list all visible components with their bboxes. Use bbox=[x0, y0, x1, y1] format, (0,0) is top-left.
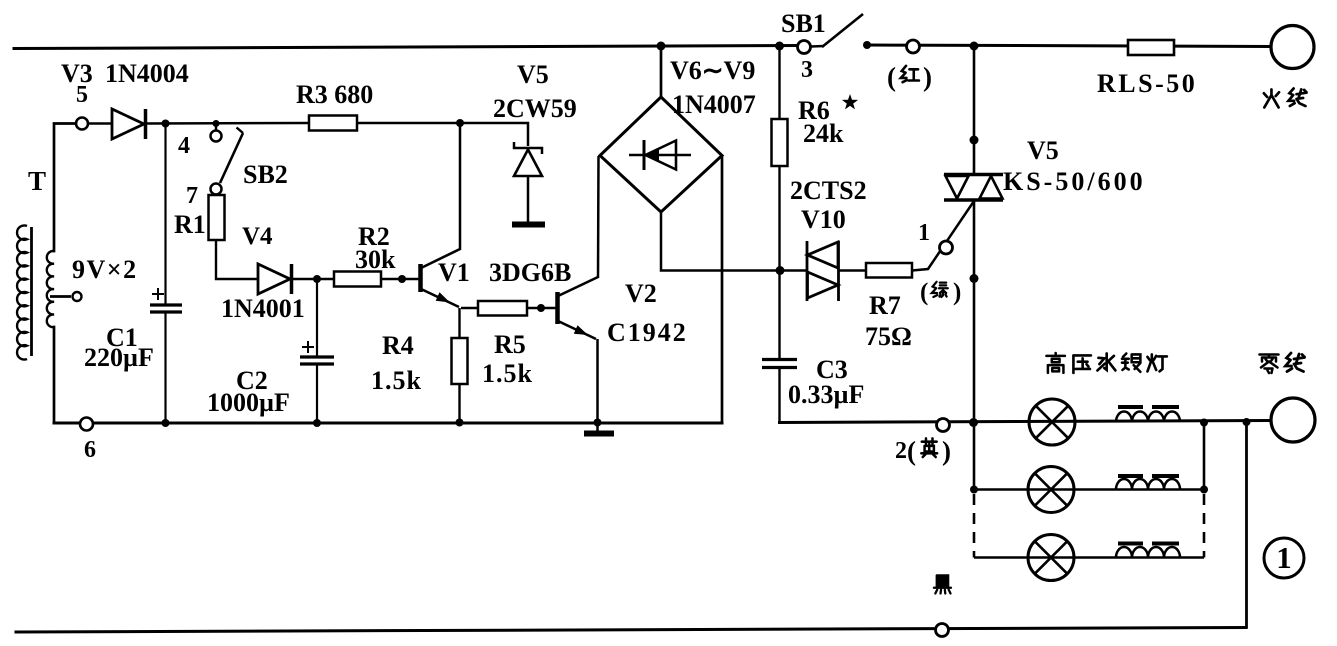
wire R4 top lead bbox=[458, 308, 460, 338]
wire V2 collector to bridge left vertex bbox=[597, 156, 600, 278]
wire lamp row3 bbox=[974, 556, 1204, 559]
label neutral wire bbox=[1260, 353, 1305, 373]
svg-text:SB2: SB2 bbox=[243, 160, 288, 189]
switch SB2 bottom contact bbox=[211, 184, 222, 195]
wire C2 bottom lead bbox=[316, 364, 318, 423]
svg-text:V10: V10 bbox=[801, 205, 846, 234]
switch SB1 blade bbox=[811, 14, 863, 47]
wire left vertical node5 bbox=[54, 124, 82, 252]
wire C3 bottom lead bbox=[778, 368, 780, 424]
lamp L3 bbox=[1028, 535, 1074, 581]
wire R3 to zener corner bbox=[357, 123, 528, 146]
wire bridge top lead bbox=[660, 46, 663, 97]
wire V2 emitter down bbox=[596, 339, 599, 423]
svg-text:T: T bbox=[28, 166, 46, 196]
terminal neutral wire circle bbox=[1271, 398, 1315, 442]
wire triac bottom lead bbox=[973, 201, 976, 423]
svg-text:2CW59: 2CW59 bbox=[493, 94, 577, 123]
switch SB2 blade bbox=[220, 133, 243, 183]
circled number 1 bbox=[1264, 538, 1304, 578]
node black terminal bottom bbox=[936, 624, 949, 637]
label high pressure mercury lamp bbox=[1046, 353, 1166, 373]
lamp L1 bbox=[1029, 399, 1075, 445]
resistor R5 1.5k bbox=[478, 301, 527, 316]
transformer T core bbox=[30, 227, 33, 356]
bridge rectifier V6-V9 diamond bbox=[600, 97, 722, 212]
svg-text:2CTS2: 2CTS2 bbox=[790, 176, 867, 205]
ground below V2 bbox=[584, 423, 614, 434]
star footnote mark bbox=[842, 94, 858, 109]
wire V1 emitter node bbox=[461, 307, 478, 310]
resistor R1 bbox=[209, 195, 225, 240]
svg-text:0.33µF: 0.33µF bbox=[788, 380, 864, 409]
svg-text:75Ω: 75Ω bbox=[865, 322, 912, 351]
label (green) bbox=[920, 279, 961, 306]
wire bottom rail bbox=[16, 628, 1246, 633]
wire C1 top lead bbox=[164, 124, 166, 305]
resistor RLS-50 box bbox=[1128, 40, 1174, 55]
diac V10 2CTS2 bbox=[807, 241, 839, 301]
wire R6 branch vertical bbox=[778, 46, 780, 119]
svg-text:RLS-50: RLS-50 bbox=[1097, 69, 1197, 98]
svg-text:V2: V2 bbox=[625, 279, 657, 308]
inductor ballast 2 bbox=[1116, 476, 1180, 490]
wire R1 to V4 bbox=[216, 240, 258, 279]
node red terminal bbox=[907, 40, 920, 53]
bridge inner diode bbox=[629, 140, 691, 170]
wire node5 to V3 bbox=[88, 122, 112, 125]
svg-text:220µF: 220µF bbox=[84, 343, 154, 372]
svg-text:): ) bbox=[923, 62, 932, 92]
wire top rail left bbox=[14, 46, 798, 49]
wire V1 collector vertical bbox=[459, 123, 462, 250]
wire C2 top lead bbox=[316, 279, 318, 356]
wire lamp bus left solid row1-row2 bbox=[973, 423, 976, 490]
svg-text:R1: R1 bbox=[174, 210, 206, 239]
terminal live wire circle bbox=[1271, 26, 1314, 69]
svg-text:KS-50/600: KS-50/600 bbox=[1003, 167, 1146, 196]
label 2 (yellow) bbox=[895, 436, 951, 466]
switch SB2 top contact bbox=[211, 131, 222, 142]
wire lamp bus left dashed row2-row3 bbox=[973, 494, 976, 558]
resistor R4 1.5k bbox=[452, 338, 468, 384]
transformer T secondary winding bbox=[47, 251, 54, 327]
svg-text:3: 3 bbox=[801, 57, 813, 83]
transistor V1 3DG6B bbox=[421, 249, 461, 307]
wire diac to R7 bbox=[839, 269, 867, 272]
resistor R6 24k bbox=[772, 119, 788, 166]
svg-text:1N4004: 1N4004 bbox=[105, 59, 189, 88]
wire lamp bus right dashed row2-row3 bbox=[1203, 494, 1206, 558]
wire left control ground rail bbox=[54, 422, 722, 425]
svg-text:(: ( bbox=[920, 279, 928, 306]
wire C1 bottom lead bbox=[164, 312, 166, 423]
node 1 gate terminal bbox=[940, 241, 953, 254]
label (red) bbox=[887, 62, 932, 92]
svg-text:5: 5 bbox=[76, 82, 88, 108]
wire V4 to R2 bbox=[293, 278, 334, 281]
capacitor C1 220uF plates bbox=[150, 305, 182, 312]
svg-text:6: 6 bbox=[84, 437, 96, 463]
inductor ballast 1 bbox=[1116, 407, 1180, 422]
svg-text:R7: R7 bbox=[869, 291, 901, 320]
capacitor C2 plus sign bbox=[302, 341, 314, 353]
transistor V2 C1942 bbox=[558, 277, 599, 339]
svg-text:1: 1 bbox=[918, 220, 930, 246]
switch SB2 stem bbox=[215, 124, 217, 131]
svg-text:V5: V5 bbox=[1027, 136, 1059, 165]
node 5 terminal bbox=[76, 118, 88, 130]
wire R4 bottom lead bbox=[458, 384, 460, 423]
wire triac top lead bbox=[973, 46, 976, 173]
svg-text:): ) bbox=[953, 279, 961, 306]
svg-text:V5: V5 bbox=[517, 60, 549, 89]
wire V3 to R3 bbox=[147, 122, 309, 125]
svg-text:4: 4 bbox=[178, 133, 190, 159]
label black wire bbox=[934, 575, 951, 593]
svg-text:V6∼V9: V6∼V9 bbox=[670, 56, 755, 85]
svg-text:1: 1 bbox=[1276, 540, 1292, 575]
wire R2 to V1 base bbox=[381, 278, 419, 281]
svg-text:R4: R4 bbox=[382, 331, 414, 360]
svg-text:24k: 24k bbox=[803, 119, 844, 148]
inductor ballast 3 bbox=[1116, 544, 1180, 558]
svg-text:R3 680: R3 680 bbox=[296, 80, 373, 109]
svg-text:R5: R5 bbox=[494, 330, 526, 359]
svg-text:C1942: C1942 bbox=[607, 318, 688, 347]
svg-text:2: 2 bbox=[895, 438, 907, 464]
svg-text:1.5k: 1.5k bbox=[371, 366, 422, 395]
switch SB1 pivot dot bbox=[863, 41, 871, 49]
wire R6 to gate node bbox=[778, 166, 780, 271]
svg-text:): ) bbox=[942, 436, 951, 466]
wire bridge right lead down bbox=[721, 156, 724, 424]
svg-text:V4: V4 bbox=[242, 223, 273, 250]
lamp L2 bbox=[1028, 467, 1074, 513]
wire bridge bottom lead bbox=[661, 212, 807, 271]
resistor R7 75ohm bbox=[866, 263, 912, 278]
diode V3 1N4004 bbox=[112, 109, 146, 139]
wire lamp feed rail bbox=[780, 421, 1272, 423]
svg-text:1N4001: 1N4001 bbox=[221, 294, 305, 323]
resistor R2 30k bbox=[334, 272, 381, 287]
svg-text:30k: 30k bbox=[355, 245, 396, 274]
node 6 terminal bbox=[80, 418, 93, 431]
svg-text:1N4007: 1N4007 bbox=[672, 90, 756, 119]
capacitor C2 1000uF plates bbox=[300, 357, 334, 364]
label live wire bbox=[1264, 88, 1307, 107]
wire lamp row2 bbox=[974, 488, 1204, 491]
svg-text:(: ( bbox=[887, 62, 896, 92]
capacitor C3 0.33uF plates bbox=[762, 360, 797, 368]
node center tap circle bbox=[73, 292, 82, 301]
wire neutral return vertical bbox=[1245, 422, 1248, 629]
svg-text:9V×2: 9V×2 bbox=[72, 255, 138, 284]
svg-text:V1: V1 bbox=[438, 258, 470, 287]
wire lamp bus right solid row1-row2 bbox=[1203, 423, 1206, 490]
diode V4 1N4001 bbox=[258, 264, 292, 294]
triac V5 KS-50/600 bbox=[944, 175, 1003, 201]
capacitor C1 plus sign bbox=[152, 288, 164, 300]
zener V5 2CW59 bbox=[512, 142, 545, 225]
svg-text:SB1: SB1 bbox=[781, 9, 826, 38]
node SB2 stem junction dot bbox=[213, 120, 220, 127]
wire top rail right bbox=[867, 45, 1272, 47]
wire R5 to V2 base bbox=[527, 307, 556, 310]
node 2 yellow terminal bbox=[937, 419, 950, 432]
svg-text:7: 7 bbox=[186, 183, 198, 209]
switch SB1 left contact bbox=[798, 41, 811, 54]
svg-text:(: ( bbox=[907, 436, 916, 466]
svg-text:3DG6B: 3DG6B bbox=[489, 258, 571, 287]
svg-text:1.5k: 1.5k bbox=[482, 359, 533, 388]
wire R7 to gate bbox=[912, 201, 974, 271]
svg-text:1000µF: 1000µF bbox=[207, 388, 290, 417]
transformer T primary winding bbox=[17, 225, 27, 359]
wire transformer secondary bottom lead bbox=[53, 327, 56, 423]
resistor R3 680 bbox=[309, 116, 357, 131]
wire C3 top lead bbox=[778, 271, 780, 359]
wire secondary center tap bbox=[50, 295, 71, 298]
